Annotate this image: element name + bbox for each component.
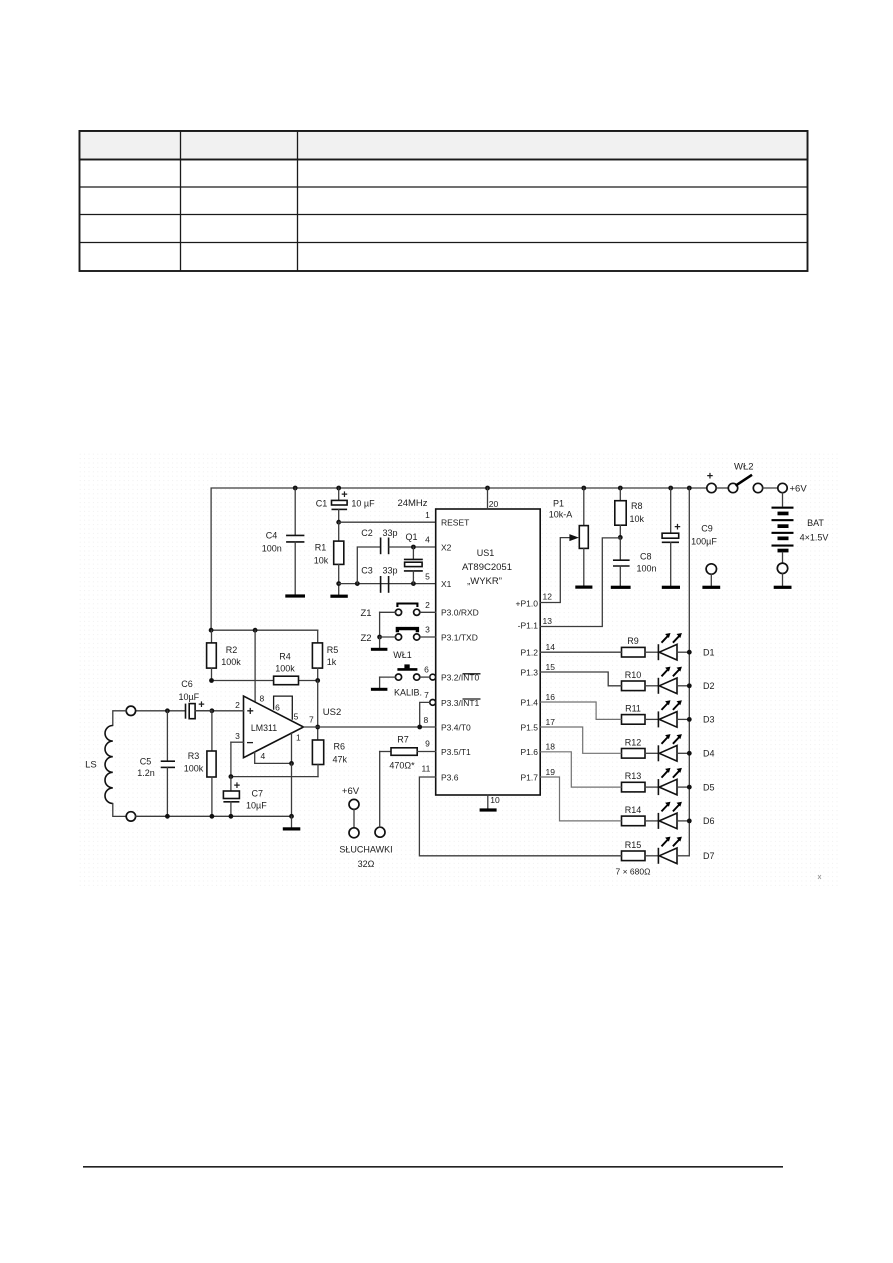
node pin20 tap xyxy=(485,486,490,491)
svg-text:BAT: BAT xyxy=(807,518,824,528)
svg-text:+: + xyxy=(234,780,240,792)
bubble pin 7 P3.3 xyxy=(430,700,436,706)
wire pin 19 P1.7 to R14 xyxy=(540,777,621,821)
svg-text:D2: D2 xyxy=(703,681,715,691)
wire pin 13 -P1.1 to R8/C8 node xyxy=(618,535,623,540)
svg-text:20: 20 xyxy=(489,499,499,509)
wire C2 left branch xyxy=(357,547,380,584)
svg-text:+6V: +6V xyxy=(342,786,360,797)
svg-text:4×1.5V: 4×1.5V xyxy=(800,533,829,543)
node LED rail tap xyxy=(687,486,692,491)
resistor R6 47k xyxy=(312,740,323,765)
resistor R13 680R xyxy=(622,782,646,792)
wire pin 3 P3.1 xyxy=(420,636,436,638)
svg-text:10µF: 10µF xyxy=(178,692,199,702)
resistor R2 100k xyxy=(211,630,213,643)
wire +6V top rail xyxy=(211,488,707,630)
terminal GND test point xyxy=(706,564,716,574)
svg-text:100n: 100n xyxy=(262,543,282,553)
svg-text:6: 6 xyxy=(424,665,429,675)
svg-text:D3: D3 xyxy=(703,715,715,725)
svg-text:LS: LS xyxy=(85,760,97,771)
svg-text:+6V: +6V xyxy=(790,484,808,495)
LED D6 xyxy=(657,813,659,829)
wire input node xyxy=(136,710,186,712)
crystal Q1 xyxy=(412,547,414,559)
svg-text:4: 4 xyxy=(261,751,266,761)
LED D3 xyxy=(657,711,659,727)
svg-text:C4: C4 xyxy=(266,531,278,541)
svg-text:C3: C3 xyxy=(361,566,373,576)
svg-text:33p: 33p xyxy=(382,566,397,576)
svg-text:Q1: Q1 xyxy=(405,532,417,542)
svg-text:11: 11 xyxy=(422,764,431,774)
ground under R1 xyxy=(330,595,347,598)
svg-text:C9: C9 xyxy=(701,524,713,534)
balance pins box 5/6 xyxy=(274,696,293,720)
wire Z2 left xyxy=(377,635,382,640)
resistor R9 680R xyxy=(622,647,646,657)
wire xyxy=(645,651,658,653)
svg-text:R12: R12 xyxy=(625,737,642,747)
resistor R1 10k xyxy=(338,522,340,541)
capacitor C5 1.2n xyxy=(166,711,168,761)
svg-text:32Ω: 32Ω xyxy=(358,859,375,869)
svg-text:SŁUCHAWKI: SŁUCHAWKI xyxy=(339,845,392,855)
svg-text:+: + xyxy=(707,471,713,483)
svg-text:10µF: 10µF xyxy=(246,801,267,811)
wire pin 1 xyxy=(291,733,293,764)
ground under P1 xyxy=(575,586,592,589)
wire + input pin 2 xyxy=(195,710,243,712)
svg-text:100n: 100n xyxy=(637,564,657,574)
svg-text:6: 6 xyxy=(275,703,280,713)
terminal battery - xyxy=(777,563,787,573)
svg-text:1k: 1k xyxy=(327,657,337,667)
svg-text:D1: D1 xyxy=(703,648,715,658)
capacitor C7 10uF xyxy=(230,777,232,791)
wire pin 15 P1.3 to R10 xyxy=(540,672,621,686)
node D6 cathode xyxy=(687,819,692,824)
wire X2 (pin 4) xyxy=(389,546,436,548)
svg-text:13: 13 xyxy=(543,616,553,626)
svg-text:R8: R8 xyxy=(631,501,643,511)
ground under KALIB button xyxy=(371,688,388,691)
wire pin 18 P1.6 to R13 xyxy=(540,752,621,787)
svg-text:R7: R7 xyxy=(397,735,409,745)
LED D2 xyxy=(657,678,659,694)
svg-text:8: 8 xyxy=(260,694,265,704)
ground under C4 xyxy=(285,594,305,597)
wire X1 (pin 5) xyxy=(336,581,341,586)
terminal headphone jack left xyxy=(349,828,359,838)
LED D4 xyxy=(657,745,659,761)
svg-text:9: 9 xyxy=(425,739,430,749)
node R8 tap xyxy=(618,486,623,491)
svg-text:R3: R3 xyxy=(188,751,200,761)
wire RESET (pin 1) xyxy=(336,520,341,525)
svg-text:P3.0/RXD: P3.0/RXD xyxy=(441,608,479,618)
svg-text:P1.5: P1.5 xyxy=(521,722,539,732)
wire xyxy=(645,718,658,720)
resistor R10 680R xyxy=(622,681,646,691)
svg-text:R1: R1 xyxy=(315,543,327,553)
svg-text:470Ω*: 470Ω* xyxy=(389,761,415,771)
IC US1 AT89C2051 body xyxy=(436,509,541,795)
resistor R8 10k xyxy=(619,488,621,501)
node D3 cathode xyxy=(687,717,692,722)
svg-text:P3.5/T1: P3.5/T1 xyxy=(441,747,471,757)
bubble pin 6 P3.2 xyxy=(430,674,436,680)
svg-text:19: 19 xyxy=(546,767,556,777)
resistor R15 680R xyxy=(622,851,646,861)
capacitor C9 100uF xyxy=(670,488,672,533)
svg-text:P1.4: P1.4 xyxy=(521,698,539,708)
svg-text:P1.7: P1.7 xyxy=(521,772,539,782)
svg-text:RESET: RESET xyxy=(441,518,469,528)
wire R7 to jack xyxy=(379,752,381,828)
svg-text:P1.3: P1.3 xyxy=(521,668,539,678)
svg-text:US1: US1 xyxy=(477,548,495,558)
node C1 tap xyxy=(336,486,341,491)
node C9 tap xyxy=(668,486,673,491)
svg-text:+: + xyxy=(247,704,254,718)
svg-text:D7: D7 xyxy=(703,851,715,861)
capacitor C8 100n xyxy=(619,537,621,559)
svg-text:R6: R6 xyxy=(334,742,346,752)
LED D1 xyxy=(657,644,659,660)
node D1 cathode xyxy=(687,650,692,655)
pin 20 VCC xyxy=(487,488,489,509)
schematic dotted background xyxy=(78,452,840,888)
wire xyxy=(353,809,355,828)
svg-text:100k: 100k xyxy=(221,657,241,667)
wire pin 17 P1.5 to R12 xyxy=(540,727,621,753)
capacitor C3 33p xyxy=(380,576,382,593)
svg-text:+: + xyxy=(198,699,204,711)
svg-text:33p: 33p xyxy=(382,528,397,538)
op-amp US2 LM311 triangle xyxy=(244,696,304,758)
svg-text:100µF: 100µF xyxy=(691,537,717,547)
svg-text:-P1.1: -P1.1 xyxy=(518,620,539,630)
svg-text:4: 4 xyxy=(425,535,430,545)
svg-text:100k: 100k xyxy=(184,764,204,774)
svg-text:100k: 100k xyxy=(275,663,295,673)
ground under battery xyxy=(774,586,792,589)
wire op-amp V+ pin 8 xyxy=(254,630,256,702)
switch WL2 xyxy=(728,483,737,492)
svg-text:10 µF: 10 µF xyxy=(351,498,375,508)
svg-text:7 × 680Ω: 7 × 680Ω xyxy=(616,867,651,877)
node D2 cathode xyxy=(687,683,692,688)
svg-text:10: 10 xyxy=(490,795,500,805)
svg-text:X1: X1 xyxy=(441,579,452,589)
wire xyxy=(677,855,689,857)
battery BAT 4x1.5V xyxy=(782,493,784,506)
svg-text:1: 1 xyxy=(296,732,301,742)
svg-text:KALIB.: KALIB. xyxy=(394,688,422,698)
wire pin 7 P3.3 to comparator output xyxy=(420,702,430,727)
ground under C8 xyxy=(611,586,631,589)
wire xyxy=(645,786,658,788)
capacitor C6 10uF xyxy=(185,704,187,719)
wire xyxy=(645,855,658,857)
svg-text:C7: C7 xyxy=(252,789,264,799)
svg-text:7: 7 xyxy=(424,690,429,700)
wire xyxy=(677,718,689,720)
potentiometer P1 10k-A xyxy=(583,488,585,526)
svg-text:WŁ1: WŁ1 xyxy=(393,650,412,660)
svg-text:P1.6: P1.6 xyxy=(521,747,539,757)
capacitor C4 100n xyxy=(294,488,296,535)
svg-text:8: 8 xyxy=(424,715,429,725)
resistor R4 100k xyxy=(212,680,274,682)
node C4 tap xyxy=(293,486,298,491)
wire C6 to + input xyxy=(195,710,212,712)
svg-text:C6: C6 xyxy=(181,679,193,689)
terminal battery + xyxy=(778,483,787,492)
svg-text:D5: D5 xyxy=(703,782,715,792)
svg-text:18: 18 xyxy=(546,742,556,752)
node D5 cathode xyxy=(687,785,692,790)
svg-text:D6: D6 xyxy=(703,816,715,826)
svg-text:R9: R9 xyxy=(627,636,639,646)
svg-text:10k: 10k xyxy=(630,514,645,524)
wire feedback R4/R5 to output xyxy=(317,681,319,741)
wire ground rail bottom xyxy=(136,815,292,817)
svg-text:R10: R10 xyxy=(625,670,642,680)
svg-text:15: 15 xyxy=(546,662,556,672)
svg-text:−: − xyxy=(246,736,253,750)
svg-text:P1.2: P1.2 xyxy=(521,648,539,658)
svg-text:16: 16 xyxy=(546,692,556,702)
capacitor C2 33p xyxy=(380,538,382,555)
ground under C9 xyxy=(662,586,680,589)
svg-text:5: 5 xyxy=(294,712,299,722)
wire xyxy=(645,685,658,687)
table (empty, header row shaded) xyxy=(80,131,808,271)
ground under Z2 xyxy=(371,648,388,651)
svg-text:R5: R5 xyxy=(327,645,339,655)
svg-text:P1: P1 xyxy=(553,499,564,509)
wire xyxy=(677,820,689,822)
wire KALIB left xyxy=(380,676,396,678)
wire pin 14 P1.2 to R9 xyxy=(540,651,621,653)
capacitor C1 10uF xyxy=(338,488,340,500)
svg-text:+: + xyxy=(341,489,347,501)
wire R6 bottom to pin 3 node xyxy=(231,776,318,778)
svg-text:C1: C1 xyxy=(316,498,328,508)
svg-text:3: 3 xyxy=(235,731,240,741)
wire xyxy=(677,752,689,754)
wire pin 11 P3.6 to R15 xyxy=(419,777,621,856)
svg-text:7: 7 xyxy=(309,715,314,725)
node P1 tap xyxy=(581,486,586,491)
svg-text:1: 1 xyxy=(425,510,430,520)
svg-text:47k: 47k xyxy=(333,755,348,765)
resistor R3 100k xyxy=(211,711,213,751)
scan speck xyxy=(818,875,821,879)
wire pin 12 +P1.0 to P1 wiper xyxy=(540,538,570,603)
wire - input pin 3 xyxy=(231,741,244,743)
resistor R12 680R xyxy=(622,749,646,759)
svg-text:Z1: Z1 xyxy=(360,608,371,619)
resistor R14 680R xyxy=(622,816,646,826)
resistor R7 470R xyxy=(380,751,391,753)
wire xyxy=(677,786,689,788)
svg-text:2: 2 xyxy=(425,600,430,610)
node D4 cathode xyxy=(687,751,692,756)
wire output pin 7 to P3.4 xyxy=(304,726,436,728)
resistor R11 680R xyxy=(622,715,646,725)
svg-text:14: 14 xyxy=(546,642,556,652)
wire LED cathode rail xyxy=(688,488,690,856)
svg-text:3: 3 xyxy=(425,625,430,635)
svg-text:US2: US2 xyxy=(323,707,341,718)
svg-text:P3.4/T0: P3.4/T0 xyxy=(441,722,471,732)
svg-text:„WYKR”: „WYKR” xyxy=(467,576,502,587)
svg-text:LM311: LM311 xyxy=(251,723,277,733)
wire Z1 left xyxy=(380,611,396,613)
svg-text:+P1.0: +P1.0 xyxy=(516,599,539,609)
svg-text:12: 12 xyxy=(543,592,553,602)
wire xyxy=(716,487,728,489)
svg-text:R11: R11 xyxy=(625,703,641,713)
wire xyxy=(763,487,778,489)
wire xyxy=(677,685,689,687)
LED D5 xyxy=(657,779,659,795)
pin 10 GND xyxy=(487,795,489,809)
svg-text:C2: C2 xyxy=(361,528,373,538)
svg-text:5: 5 xyxy=(425,572,430,582)
wire xyxy=(645,752,658,754)
svg-text:R2: R2 xyxy=(226,645,238,655)
coil LS xyxy=(126,706,135,715)
wire R2/R5 top rail xyxy=(211,629,318,631)
svg-text:10k-A: 10k-A xyxy=(549,509,573,519)
wire xyxy=(645,820,658,822)
wire pin 16 P1.4 to R11 xyxy=(540,702,621,719)
svg-text:R15: R15 xyxy=(625,840,642,850)
svg-text:17: 17 xyxy=(546,717,556,727)
resistor R5 1k xyxy=(317,630,319,643)
svg-text:C8: C8 xyxy=(640,552,652,562)
svg-text:2: 2 xyxy=(235,700,240,710)
svg-text:1.2n: 1.2n xyxy=(137,768,155,778)
wire pin 2 P3.0 xyxy=(420,611,436,613)
svg-text:AT89C2051: AT89C2051 xyxy=(462,562,512,573)
svg-text:WŁ2: WŁ2 xyxy=(734,462,754,473)
svg-text:R13: R13 xyxy=(625,771,642,781)
svg-text:P3.6: P3.6 xyxy=(441,772,459,782)
svg-text:+: + xyxy=(674,522,680,534)
terminal headphone jack right xyxy=(375,827,385,837)
svg-text:R14: R14 xyxy=(625,805,642,815)
svg-text:P3.1/TXD: P3.1/TXD xyxy=(441,632,478,642)
svg-text:10k: 10k xyxy=(314,556,329,566)
ground bottom rail xyxy=(283,827,301,830)
wire xyxy=(677,651,689,653)
svg-text:X2: X2 xyxy=(441,543,452,553)
svg-text:24MHz: 24MHz xyxy=(397,498,427,509)
svg-text:D4: D4 xyxy=(703,749,715,759)
wire pin 4 xyxy=(255,752,292,763)
footer rule xyxy=(83,1166,783,1168)
svg-text:R4: R4 xyxy=(279,651,291,661)
svg-text:C5: C5 xyxy=(140,757,152,767)
LED D7 xyxy=(657,848,659,864)
svg-text:Z2: Z2 xyxy=(360,633,371,644)
wire pin 6 P3.2 xyxy=(420,676,430,678)
